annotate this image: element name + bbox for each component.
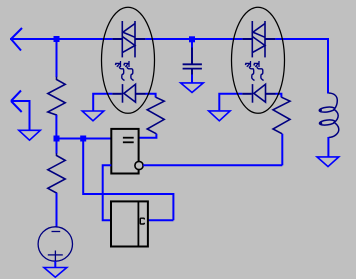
node junction mid rail left <box>54 136 60 142</box>
wire gate U3 lower input <box>103 165 112 220</box>
ground under L1 <box>317 157 339 167</box>
capacitor C1 <box>183 48 202 75</box>
node junction on rail at R1 <box>54 36 60 42</box>
LED2 anode lead stub <box>266 93 276 95</box>
c-box U4 divider <box>137 201 139 246</box>
source V1 <box>38 227 72 261</box>
resistor R4 <box>48 153 65 195</box>
wire feedback from mid junction down <box>83 139 173 221</box>
wire LED2 cathode <box>219 94 242 110</box>
LED D1 of optocoupler U1 <box>123 84 136 103</box>
resistor R3 <box>273 97 290 134</box>
LED1 cathode lead stub <box>112 93 122 95</box>
wire R4 bottom stem to source <box>56 193 58 227</box>
wire R2 bottom to gate output <box>139 134 157 138</box>
LED1 anode lead stub <box>136 93 146 95</box>
ground under C1 <box>181 83 204 93</box>
node arrow connector top left <box>11 28 22 51</box>
ground under LED1 wire <box>82 111 104 121</box>
wire main rail segment 1 <box>10 38 112 40</box>
wire R3 bottom to bubble wire <box>281 134 283 166</box>
LED2 cathode lead stub <box>242 93 252 95</box>
resistor R2 <box>147 97 164 134</box>
wire R4 top stem <box>56 139 58 154</box>
wire c-box right pin <box>148 219 174 221</box>
wire R1 bottom stem <box>55 115 57 139</box>
triac of optocoupler U2 <box>252 21 265 57</box>
wire LED1 anode to R2 <box>146 94 156 98</box>
wire source bottom stem <box>54 261 56 268</box>
LED D2 of optocoupler U2 <box>253 84 266 103</box>
c-box U4 label c <box>140 218 144 224</box>
gate box U3 <box>111 129 138 174</box>
light arrows of optocoupler U2 <box>245 61 264 81</box>
ground under LED2 wire <box>209 111 231 121</box>
triac of optocoupler U1 <box>122 21 135 57</box>
node junction mid rail right <box>80 136 86 142</box>
wire mid rail to gate box <box>57 138 112 140</box>
capacitor C1 stem <box>191 39 193 48</box>
gate U3 output bubble <box>135 161 143 169</box>
wire main rail segment 3 <box>275 38 328 40</box>
triac U2 left lead stub <box>242 38 252 40</box>
wire LED1 cathode <box>93 94 112 111</box>
node junction on rail at C1 <box>189 36 195 42</box>
c-box U4 <box>111 201 148 246</box>
ground under source <box>44 268 67 278</box>
node arrow connector mid left <box>11 91 30 131</box>
ellipse of optocoupler U2 <box>232 7 285 113</box>
wire rail drop to inductor <box>327 38 329 94</box>
wire main rail segment 2 <box>145 38 242 40</box>
triac U2 right lead stub <box>265 38 275 40</box>
triac U1 left lead stub <box>112 38 122 40</box>
wire LED2 anode to R3 <box>276 94 282 98</box>
gate U3 hysteresis marks <box>123 138 134 143</box>
wire bubble output <box>143 164 282 166</box>
light arrows of optocoupler U1 <box>115 61 134 81</box>
triac U1 right lead stub <box>135 38 145 40</box>
ground under arrow connector <box>19 130 41 140</box>
wire C1 bottom stem <box>191 75 193 83</box>
resistor R1 <box>48 77 65 118</box>
ellipse of optocoupler U1 <box>102 7 155 113</box>
inductor L1 <box>319 93 339 138</box>
wire R1 top stem <box>56 39 58 77</box>
wire L1 bottom stem <box>327 137 329 157</box>
